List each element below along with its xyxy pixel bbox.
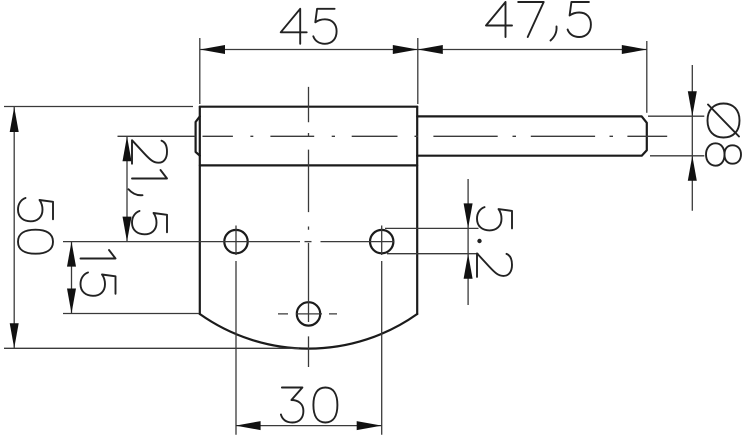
dimension text 45 <box>281 9 337 44</box>
centerline: pin axis dash-dot <box>118 135 668 137</box>
dimension text 15 (rotated) <box>81 250 116 296</box>
dimension text 5.2 (rotated) <box>477 207 512 277</box>
hole left <box>224 230 247 253</box>
centerline: plate vertical axis dash-dot <box>308 87 310 367</box>
dimension line: 50 <box>13 107 15 348</box>
extension line: 5.2 top tangent <box>385 227 479 229</box>
arrow: 15 bottom <box>67 289 76 314</box>
crosshair: right hole vertical <box>381 226 383 256</box>
arrow: 50 bottom <box>10 323 19 348</box>
dimension text diameter 8 (rotated) <box>706 104 741 166</box>
arrow: 30 left <box>236 421 261 430</box>
arrow: 21.5 bottom <box>123 217 132 242</box>
arrow: 15 top <box>67 242 76 267</box>
extension line: 45/47.5 shared at x=418 <box>417 38 419 104</box>
dimension line: 5.2 <box>467 179 469 305</box>
centerline: hole row right segment <box>321 241 395 243</box>
extension line: diameter 8 bottom tangent <box>650 155 704 157</box>
dimension text 30 <box>281 388 338 423</box>
arrow: diameter 8 upper (pointing down) <box>688 91 697 116</box>
arrow: 30 right <box>357 421 382 430</box>
extension line: 47.5 right <box>646 41 648 113</box>
extension line: 50 bottom <box>4 347 299 349</box>
part outline: barrel top edge <box>200 106 417 108</box>
dimension line: 30 <box>236 425 382 427</box>
arrow: 45 right <box>393 45 418 54</box>
arrow: 5.2 lower (pointing up) <box>464 254 473 279</box>
centerline: hole row left segment <box>63 241 300 243</box>
hole bottom <box>297 302 320 325</box>
dimension text 21,5 (rotated) <box>129 140 168 234</box>
part outline: left edge <box>199 107 201 314</box>
arrow: 21.5 top <box>123 136 132 161</box>
arrow: 47.5 right <box>622 45 647 54</box>
dimension line: 21.5 <box>126 136 128 241</box>
dimension text 50 (rotated) <box>18 198 53 254</box>
dimension line: diameter 8 <box>691 65 693 211</box>
arrow: 45 left <box>200 45 225 54</box>
arrow: 5.2 upper (pointing down) <box>464 203 473 228</box>
extension line: 15 bottom <box>63 313 199 315</box>
part outline: pin left end cap <box>196 116 200 155</box>
extension line: 5.2 bottom tangent <box>387 253 479 255</box>
part outline: bottom arc <box>200 314 417 349</box>
crosshair: bottom hole horizontal <box>278 313 337 315</box>
part outline: right edge <box>416 107 418 314</box>
hole right <box>370 230 393 253</box>
extension line: 30 right <box>381 261 383 435</box>
dimension line: 15 <box>71 242 73 314</box>
part outline: leaf boundary line <box>200 164 417 166</box>
extension line: 50 top <box>4 106 193 108</box>
arrow: 47.5 left <box>418 45 443 54</box>
part outline: pin <box>417 116 647 155</box>
centerline: hole row dash <box>305 241 312 243</box>
dimension line: 45 and 47.5 <box>200 49 647 51</box>
extension line: diameter 8 top tangent <box>648 115 704 117</box>
dimension text 47,5 <box>486 2 591 41</box>
arrow: 50 top <box>10 107 19 132</box>
extension line: 30 left <box>235 261 237 435</box>
arrow: diameter 8 lower (pointing up) <box>688 156 697 181</box>
crosshair: left hole vertical <box>235 226 237 256</box>
extension line: 45 left <box>199 38 201 104</box>
